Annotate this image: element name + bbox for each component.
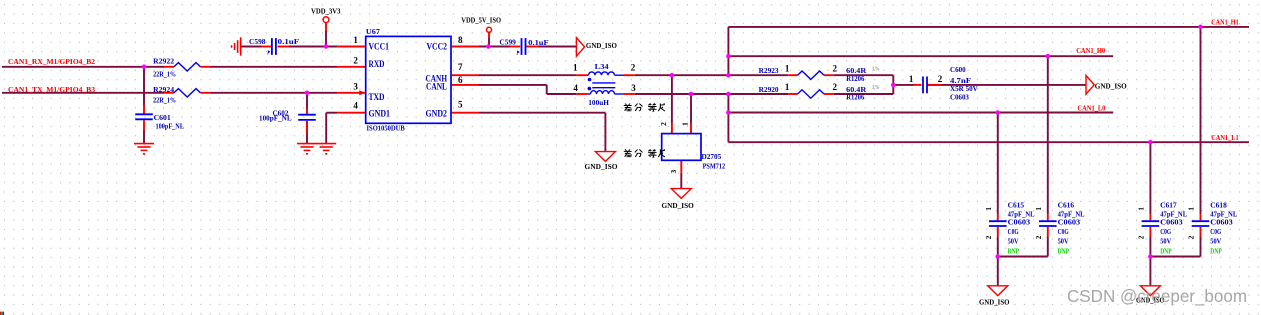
svg-text:4: 4 [353,100,358,110]
svg-text:C0G: C0G [1008,228,1019,236]
svg-text:C599: C599 [499,38,516,46]
svg-text:C598: C598 [249,38,266,46]
svg-text:DNP: DNP [1058,247,1070,255]
svg-text:DNP: DNP [1160,247,1172,255]
svg-text:2: 2 [833,64,838,74]
svg-text:GND_ISO: GND_ISO [585,162,618,171]
svg-text:C0603: C0603 [950,94,969,102]
svg-text:2: 2 [631,62,636,72]
svg-text:1: 1 [909,74,914,84]
svg-text:L34: L34 [595,63,609,71]
svg-text:2: 2 [1035,235,1043,239]
svg-text:ISO1050DUB: ISO1050DUB [367,125,405,133]
svg-text:1: 1 [353,35,358,45]
svg-text:C0G: C0G [1160,228,1171,236]
svg-text:C0G: C0G [1058,228,1069,236]
svg-text:VCC1: VCC1 [369,42,390,52]
svg-text:U67: U67 [366,28,380,36]
svg-text:DNP: DNP [1210,247,1222,255]
svg-text:60.4R: 60.4R [846,67,867,75]
svg-text:3: 3 [669,169,678,173]
svg-text:1: 1 [1188,207,1196,211]
svg-text:R1206: R1206 [846,94,865,102]
svg-text:GND_ISO: GND_ISO [1095,82,1127,91]
svg-text:1%: 1% [872,84,880,91]
svg-text:R1206: R1206 [846,75,865,83]
svg-text:C0G: C0G [1210,228,1221,236]
svg-text:C0603: C0603 [1210,219,1233,227]
svg-text:C618: C618 [1210,202,1227,210]
svg-text:RXD: RXD [369,60,385,70]
svg-text:CAN1_RX_M1/GPIO4_B2: CAN1_RX_M1/GPIO4_B2 [8,58,95,66]
svg-text:3: 3 [631,83,636,93]
svg-text:C0603: C0603 [1008,219,1031,227]
svg-text:CSDN @creeper_boom: CSDN @creeper_boom [1067,286,1247,307]
svg-text:C601: C601 [154,114,172,122]
svg-text:R2922: R2922 [153,58,174,66]
svg-text:C0603: C0603 [1058,219,1081,227]
svg-text:CAN1_TX_M1/GPIO4_B3: CAN1_TX_M1/GPIO4_B3 [8,86,95,94]
svg-text:22R_1%: 22R_1% [153,97,176,105]
svg-text:1: 1 [785,64,790,74]
svg-text:2: 2 [1188,235,1196,239]
svg-text:2: 2 [985,235,993,239]
svg-text:PSM712: PSM712 [703,162,726,170]
svg-text:R2920: R2920 [759,86,779,94]
svg-text:100pF_NL: 100pF_NL [156,122,185,130]
svg-text:1: 1 [681,122,690,126]
svg-text:C617: C617 [1160,202,1177,210]
svg-text:VDD_3V3: VDD_3V3 [311,7,341,15]
svg-text:50V: 50V [1160,237,1171,245]
svg-text:C616: C616 [1058,202,1075,210]
svg-text:2: 2 [659,122,668,126]
svg-text:3: 3 [353,82,358,92]
svg-text:22R_1%: 22R_1% [153,70,176,78]
svg-text:VDD_5V_ISO: VDD_5V_ISO [461,17,501,25]
svg-text:50V: 50V [1008,237,1019,245]
svg-text:100uH: 100uH [588,99,609,107]
svg-text:CAN1_L0: CAN1_L0 [1078,104,1106,112]
svg-text:VCC2: VCC2 [427,42,448,52]
svg-text:CAN1_L1: CAN1_L1 [1211,134,1239,142]
svg-text:DNP: DNP [1008,247,1020,255]
svg-text:C615: C615 [1008,202,1025,210]
svg-text:R2924: R2924 [153,86,174,94]
svg-text:6: 6 [458,75,463,85]
svg-text:47pF_NL: 47pF_NL [1160,211,1187,219]
svg-text:0.1uF: 0.1uF [278,38,300,46]
svg-text:1%: 1% [872,65,880,72]
svg-text:4.7nF: 4.7nF [950,77,972,85]
svg-text:R2923: R2923 [759,67,779,75]
svg-text:D2705: D2705 [702,153,722,161]
svg-text:1: 1 [1035,207,1043,211]
svg-text:C600: C600 [950,66,966,74]
svg-text:2: 2 [353,55,358,65]
svg-text:1: 1 [1138,207,1146,211]
svg-text:1: 1 [785,82,790,92]
svg-text:GND2: GND2 [426,109,448,119]
svg-text:50V: 50V [1210,237,1221,245]
svg-text:7: 7 [458,62,463,72]
svg-text:GND_ISO: GND_ISO [586,41,617,50]
svg-text:GND_ISO: GND_ISO [662,201,694,210]
svg-text:50V: 50V [1058,237,1069,245]
svg-text:100pF_NL: 100pF_NL [259,114,292,122]
svg-text:TXD: TXD [369,93,385,103]
svg-text:GND_ISO: GND_ISO [979,298,1010,307]
svg-text:0.1uF: 0.1uF [528,39,549,47]
svg-text:GND1: GND1 [369,109,391,119]
svg-text:CAN1_H0: CAN1_H0 [1076,47,1105,55]
svg-text:CAN1_H1: CAN1_H1 [1211,19,1239,27]
svg-text:C0603: C0603 [1160,219,1183,227]
svg-text:2: 2 [833,82,838,92]
svg-text:5: 5 [458,100,463,110]
svg-text:47pF_NL: 47pF_NL [1058,211,1085,219]
svg-text:4: 4 [573,83,578,93]
svg-text:X5R 50V: X5R 50V [950,85,978,93]
svg-text:8: 8 [458,35,463,45]
svg-text:CANL: CANL [426,82,447,92]
svg-text:47pF_NL: 47pF_NL [1210,211,1237,219]
svg-text:1: 1 [573,62,578,72]
svg-text:2: 2 [938,74,943,84]
svg-text:47pF_NL: 47pF_NL [1008,211,1035,219]
svg-text:2: 2 [1138,235,1146,239]
svg-text:1: 1 [985,207,993,211]
